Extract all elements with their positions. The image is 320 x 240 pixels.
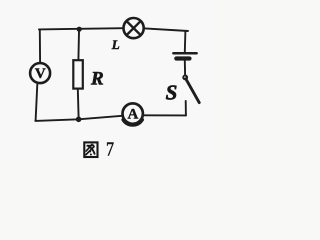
- wire bottom rail left segment: [35, 116, 122, 121]
- svg-text:S: S: [166, 81, 178, 105]
- lamp L1 cross: [127, 21, 141, 35]
- wire voltmeter bottom lead: [36, 84, 38, 120]
- svg-text:7: 7: [106, 138, 114, 160]
- svg-text:A: A: [127, 107, 138, 123]
- ammeter U2 circle: [123, 103, 143, 125]
- svg-text:V: V: [35, 66, 46, 82]
- battery BT1 short plate: [176, 56, 189, 60]
- resistor R: [73, 60, 83, 88]
- wire switch bottom stub: [185, 101, 187, 116]
- wire right vertical (corner to battery): [184, 31, 187, 52]
- switch S blade: [186, 80, 199, 103]
- wire left vertical top (corner to voltmeter top): [39, 29, 41, 62]
- wire battery to switch lead: [184, 60, 186, 75]
- switch S hinge: [182, 75, 188, 81]
- battery BT1 long plate: [173, 52, 196, 55]
- caption glyph 图: [84, 142, 97, 157]
- svg-text:L: L: [111, 37, 120, 52]
- wire resistor top lead: [77, 32, 80, 61]
- lamp L1 circle: [124, 18, 144, 38]
- svg-text:R: R: [90, 69, 104, 90]
- wire resistor bottom lead: [77, 89, 80, 117]
- voltmeter U1 circle: [30, 63, 50, 83]
- wire top rail left segment: [39, 28, 123, 29]
- wire bottom rail right segment: [144, 114, 186, 116]
- wire top rail right segment: [145, 28, 188, 31]
- node junction bottom: [76, 117, 82, 123]
- node junction top: [77, 27, 82, 32]
